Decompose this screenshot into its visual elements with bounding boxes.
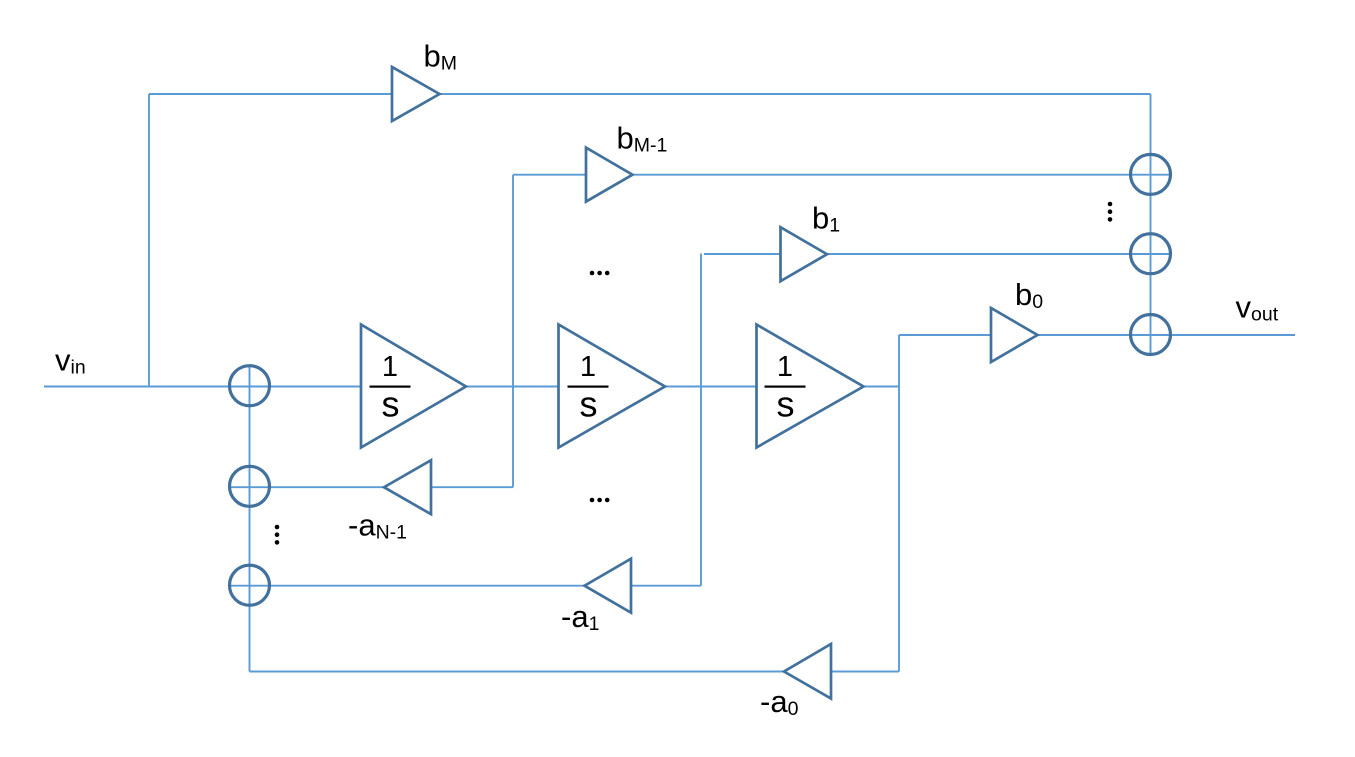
wire integrator U1 output to integrator U2 xyxy=(466,386,559,388)
svg-text:bM-1: bM-1 xyxy=(617,121,668,157)
summing junction S2 xyxy=(1131,234,1171,274)
gain amplifier bM xyxy=(392,67,440,121)
svg-text:-a0: -a0 xyxy=(760,684,799,720)
svg-text:vin: vin xyxy=(55,343,86,379)
svg-text:b0: b0 xyxy=(1015,277,1043,313)
svg-text:s: s xyxy=(382,384,400,425)
wire feed-forward through b1 to summer S2 xyxy=(704,253,1172,255)
vertical ellipsis right summing column xyxy=(1108,202,1113,207)
wire branch vin up to bM feed-forward xyxy=(148,94,150,387)
wire integrator U2 output to integrator U3 xyxy=(665,386,757,388)
wire branch node XN-1 vertical xyxy=(512,175,514,488)
summing junction S1 xyxy=(1131,154,1171,194)
wire feed-forward through b0 to summer S3 and vout xyxy=(899,334,1295,336)
wire feed-forward through bM-1 to summer S1 xyxy=(513,174,1172,176)
svg-text:bM: bM xyxy=(424,39,458,75)
ellipsis between integrators U2 and U3 (top) xyxy=(590,271,595,276)
wire right summing column vertical xyxy=(1150,94,1152,356)
svg-text:1: 1 xyxy=(382,351,398,383)
svg-text:1: 1 xyxy=(580,351,596,383)
svg-text:-a1: -a1 xyxy=(561,599,599,635)
gain amplifier b1 xyxy=(781,227,828,281)
wire integrator U3 output to node X0 xyxy=(864,386,900,388)
svg-text:b1: b1 xyxy=(812,201,840,237)
integrator U1 xyxy=(361,325,466,448)
integrator U2 xyxy=(559,325,666,448)
gain amplifier bM-1 xyxy=(586,148,633,202)
wire branch node X1 vertical xyxy=(700,254,702,586)
wire feedback -aN-1 to summer S4 xyxy=(229,486,514,488)
svg-text:s: s xyxy=(777,384,795,425)
wire branch node X0 vertical xyxy=(898,335,900,672)
gain amplifier -a0 xyxy=(784,644,831,699)
ellipsis between feedback paths (bottom) xyxy=(590,498,595,503)
summing junction S4 (input summer) xyxy=(230,366,270,406)
wire top feed-forward through bM to right column xyxy=(149,93,1151,95)
gain amplifier b0 xyxy=(991,308,1038,362)
wire feedback -a1 to summer S5 xyxy=(229,585,702,587)
summing junction S5 xyxy=(230,466,270,506)
integrator U3 xyxy=(757,325,864,448)
vertical ellipsis left summing column xyxy=(275,525,280,530)
summing junction S6 xyxy=(230,565,270,605)
wire left summing column vertical xyxy=(249,365,251,671)
svg-text:vout: vout xyxy=(1236,290,1279,326)
wire input vin to integrator U1 xyxy=(44,386,361,388)
svg-text:1: 1 xyxy=(777,351,793,383)
gain amplifier -a1 xyxy=(585,559,632,613)
gain amplifier -aN-1 xyxy=(384,460,431,514)
svg-text:-aN-1: -aN-1 xyxy=(348,508,407,544)
svg-text:s: s xyxy=(580,384,598,425)
summing junction S3 (output summer) xyxy=(1131,315,1171,355)
wire feedback -a0 bottom run xyxy=(250,671,900,673)
